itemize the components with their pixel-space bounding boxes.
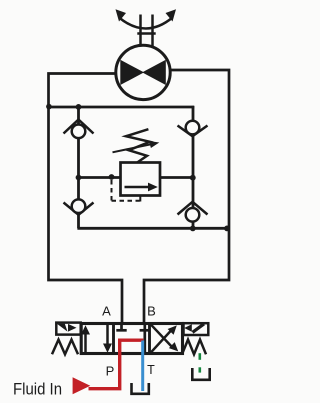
node: right rail / relief port junction <box>190 175 196 181</box>
relief valve adjustment arrow <box>113 141 160 152</box>
check valve CV4 (bottom-right) <box>178 202 208 222</box>
svg-text:P: P <box>106 364 115 379</box>
right envelope crossed arrow 2 <box>151 325 178 352</box>
wire motor left line <box>49 74 123 325</box>
wire motor right line <box>144 70 229 324</box>
center envelope T line <box>140 325 150 353</box>
right envelope crossed arrow 1 <box>151 325 177 352</box>
tank symbol (right drain) <box>192 368 209 380</box>
relief valve pilot line (dashed) <box>112 180 140 201</box>
envelope divider left <box>112 324 115 354</box>
motor shaft <box>137 15 155 47</box>
left envelope down arrow <box>103 325 112 353</box>
relief valve spring <box>126 129 150 162</box>
relief valve RV1 body <box>121 163 161 196</box>
node: left rail / relief port junction <box>76 175 82 181</box>
red pressure line: Fluid In arrow <box>73 377 91 394</box>
svg-text:B: B <box>147 304 156 319</box>
wire: relief right port <box>160 176 193 179</box>
green drain dashes <box>199 353 202 372</box>
spring (left) <box>52 340 78 355</box>
check valve CV2 (bottom-left) <box>64 199 94 214</box>
red pressure line P path <box>89 340 144 389</box>
svg-text:A: A <box>102 304 111 319</box>
bridge right rail <box>192 106 195 229</box>
solenoid SOL-a (left) <box>56 323 80 335</box>
spring (right) <box>182 340 206 355</box>
wire: relief left port <box>79 176 121 179</box>
blue tank line <box>141 341 144 392</box>
check valve CV1 (top-left) <box>64 120 94 139</box>
envelope divider right <box>148 324 151 354</box>
node: top rail / left main junction <box>46 104 52 110</box>
bidirectional rotation arrow <box>116 9 177 28</box>
hydraulic motor M1 <box>116 45 170 99</box>
node: top rail / left rail junction <box>76 104 82 110</box>
bridge bottom rail <box>77 227 230 230</box>
check valve CV3 (top-right) <box>178 121 208 136</box>
svg-text:T: T <box>147 363 155 377</box>
pilot stub to valve bottom <box>139 196 141 202</box>
tank symbol (below valve) <box>132 383 149 394</box>
node: pilot tap junction <box>109 174 115 180</box>
center envelope blocked port A stub <box>116 325 126 330</box>
directional valve DV1 body <box>81 324 182 354</box>
node: bottom rail / right main junction <box>224 226 230 232</box>
svg-text:Fluid In: Fluid In <box>13 379 62 398</box>
bridge left rail <box>77 107 80 228</box>
node: bottom rail / right rail junction <box>190 226 196 232</box>
solenoid SOL-b (right) <box>184 323 209 335</box>
left envelope up arrow <box>81 325 90 352</box>
bridge top rail <box>49 106 195 109</box>
relief valve flow arrow <box>125 183 158 192</box>
